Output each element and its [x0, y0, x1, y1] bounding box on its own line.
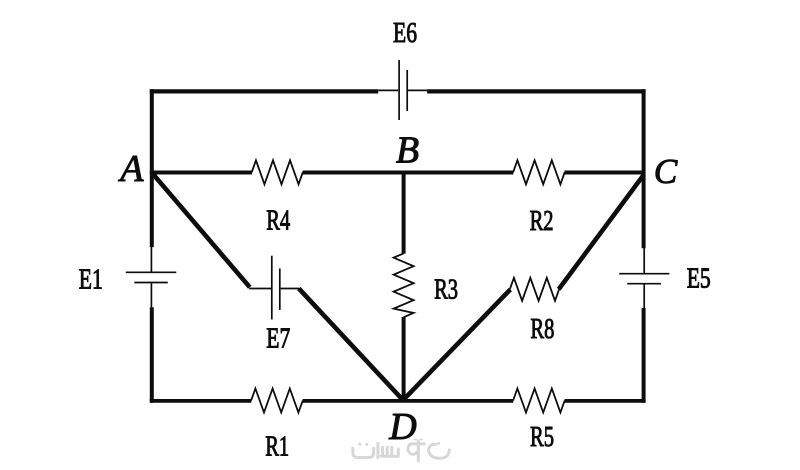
svg-text:R4: R4: [266, 204, 290, 236]
resistor R1: [251, 389, 303, 413]
svg-text:E6: E6: [393, 17, 417, 49]
wire diagonal E7 to D: [299, 289, 403, 401]
wire top rail right segment (E6 to C corner): [427, 89, 645, 93]
wire R3 down to D: [402, 317, 406, 401]
wire top rail left segment (A corner to E6): [150, 89, 378, 93]
svg-text:R3: R3: [434, 274, 458, 306]
svg-text:R2: R2: [530, 205, 554, 237]
battery E1: [126, 247, 177, 307]
svg-text:E7: E7: [266, 323, 290, 355]
wire R4 to B to R2 (mid horizontal): [303, 171, 514, 175]
wire diagonal A to E7: [152, 173, 250, 288]
wire left rail upper (A up to top rail, down to E1): [150, 89, 154, 247]
svg-text:A: A: [117, 148, 144, 190]
wire diagonal D to R8: [403, 290, 511, 401]
svg-text:E5: E5: [687, 263, 711, 295]
svg-text:E1: E1: [79, 264, 103, 296]
wire left rail lower (E1 to bottom rail): [150, 307, 154, 403]
svg-text:R8: R8: [530, 313, 554, 345]
resistor R5: [513, 389, 565, 413]
wire bottom rail left segment (corner to R1): [150, 399, 252, 403]
battery E5: [619, 248, 669, 308]
resistor R4: [252, 160, 303, 184]
battery E7: [249, 256, 299, 320]
wire right rail lower (E5 to bottom rail): [642, 308, 646, 403]
svg-text:R5: R5: [530, 421, 554, 453]
wire R5 to bottom-right corner: [565, 399, 646, 403]
wire A to R4 (mid horizontal): [150, 171, 252, 175]
svg-text:R1: R1: [265, 431, 289, 463]
battery E6: [378, 60, 427, 120]
resistor R2: [513, 160, 565, 184]
wire B down to R3: [402, 171, 406, 254]
wire right rail upper (C up to top rail, down to E5): [642, 89, 646, 248]
resistor R3: [394, 253, 414, 317]
wire diagonal R8 to C: [559, 175, 644, 289]
wire R1 to D to R5 (bottom rail middle): [303, 399, 514, 403]
resistor R8: [510, 278, 559, 301]
svg-text:C: C: [654, 152, 678, 191]
svg-text:B: B: [396, 130, 419, 172]
wire R2 to C (mid horizontal): [565, 171, 644, 175]
svg-text:D: D: [388, 406, 416, 448]
watermark khamsat: [353, 440, 450, 461]
